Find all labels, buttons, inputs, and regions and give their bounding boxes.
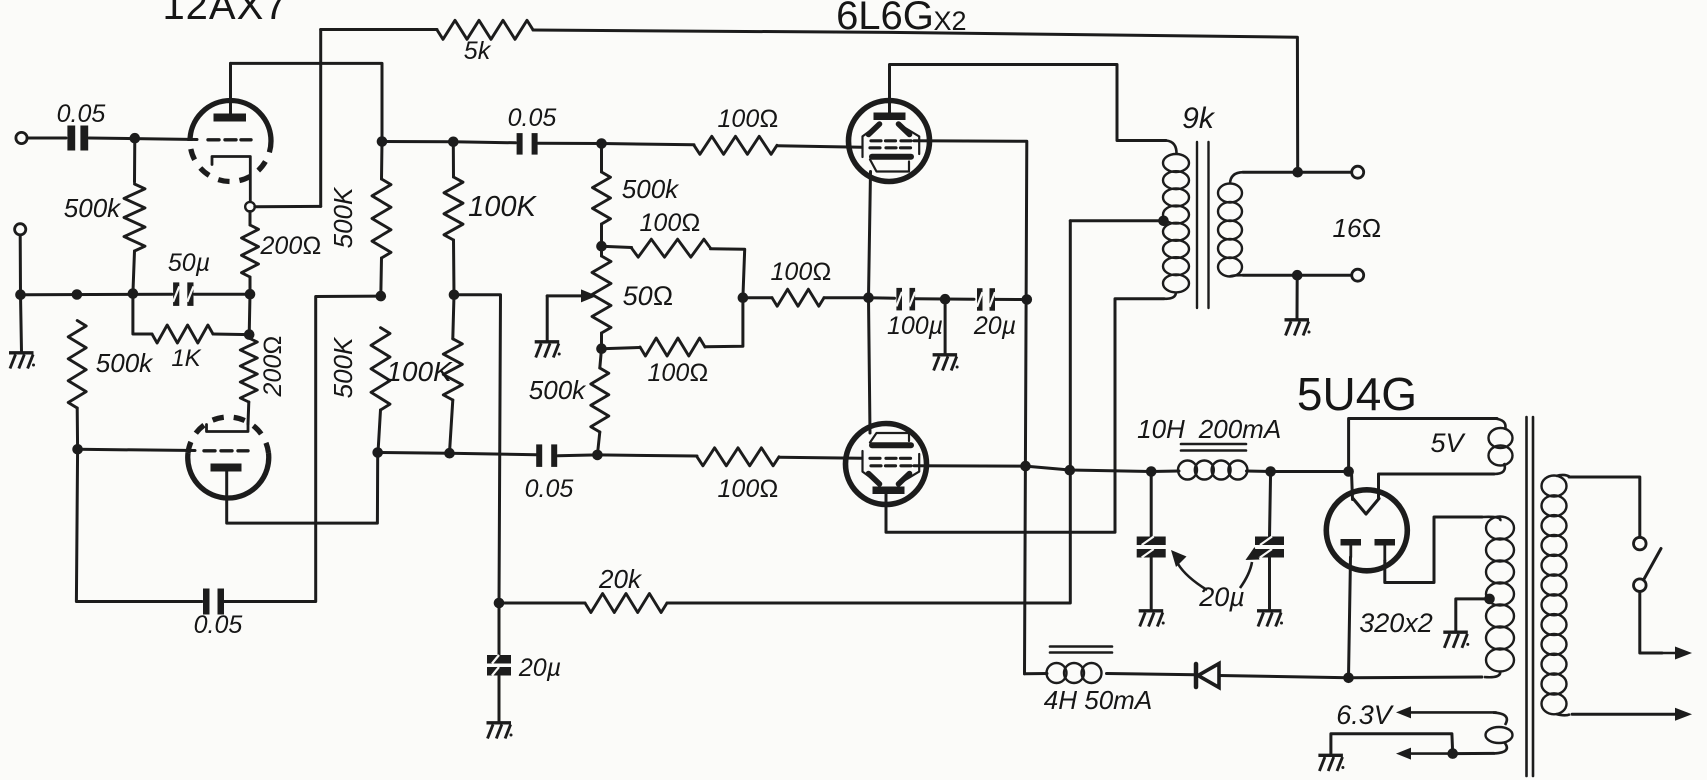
- node B: [448, 137, 459, 148]
- wire HV top bend: [1482, 517, 1500, 521]
- wire V1a plate up: [229, 63, 232, 113]
- node 6.3V tap: [1447, 748, 1458, 759]
- svg-text:200Ω: 200Ω: [260, 232, 322, 260]
- wire D to B+ dropper: [454, 295, 501, 603]
- node secondary bottom: [1292, 270, 1303, 281]
- resistor 200 ohm V1a cathode: [242, 225, 259, 277]
- svg-text:320x2: 320x2: [1359, 608, 1433, 638]
- wire cathode V1a to feedback riser: [255, 205, 321, 208]
- switch S1 contact bottom: [1634, 579, 1647, 592]
- tube V3 plate bar: [873, 487, 905, 495]
- svg-text:9k: 9k: [1182, 102, 1216, 135]
- svg-text:5k: 5k: [464, 37, 492, 65]
- wire V3 plate to OT primary bottom: [886, 299, 1164, 533]
- tube V3 grid bracket: [863, 451, 880, 484]
- transformer OT secondary coil: [1218, 184, 1242, 203]
- wire C3 to node F: [558, 453, 597, 457]
- wire pot bottom lead: [600, 333, 603, 349]
- input jack J2 (bottom): [15, 224, 26, 235]
- wire feedback riser: [319, 30, 322, 207]
- wire mains bottom lead: [1556, 714, 1570, 715]
- node pot top: [596, 241, 607, 252]
- svg-text:0.05: 0.05: [57, 100, 106, 128]
- wire 20u3 lead: [498, 603, 501, 655]
- wire choke left lead: [1151, 470, 1179, 474]
- wire HV CT to ground: [1456, 599, 1490, 632]
- resistor 500k lower-left grid leak V1b: [68, 321, 86, 409]
- wire V3 cathode up: [869, 298, 871, 433]
- wire 20k left lead: [499, 602, 585, 605]
- svg-text:500k: 500k: [529, 375, 587, 405]
- tube V2 plate bar: [874, 113, 906, 121]
- resistor 500k upper grid resistor: [593, 172, 611, 224]
- node cathode V1a (open): [245, 202, 255, 212]
- tube V2 grid bracket: [863, 124, 880, 157]
- wire cathode to 200ohm: [249, 212, 252, 226]
- wire C2 to node E: [538, 142, 602, 145]
- wire mains top lead: [1556, 475, 1570, 477]
- svg-text:500k: 500k: [64, 193, 122, 223]
- transformer 5V winding: [1489, 428, 1513, 448]
- node B+ CT riser: [1065, 465, 1076, 476]
- tube V3 6L6 envelope: [846, 424, 927, 505]
- wire OT secondary bottom: [1230, 275, 1243, 276]
- wire node X to 200ohm2: [247, 335, 250, 338]
- speaker terminal top: [1352, 166, 1364, 178]
- node screen bypass: [1022, 294, 1033, 305]
- wire grid leak top lead: [133, 138, 136, 182]
- svg-text:20µ: 20µ: [1198, 582, 1245, 612]
- wire stopper to grid V2: [777, 146, 862, 148]
- svg-text:16Ω: 16Ω: [1333, 213, 1382, 243]
- switch S1 contact top: [1634, 537, 1647, 550]
- svg-text:100Ω: 100Ω: [718, 475, 779, 503]
- triode V1b cathode: [207, 424, 249, 432]
- tube V2 6L6 envelope: [849, 101, 930, 182]
- wire V4 right plate to HV top: [1385, 517, 1482, 583]
- wire mid to 100ohm4: [743, 296, 772, 299]
- svg-text:500k: 500k: [96, 348, 154, 378]
- wire 500k2 to grid node V1b: [76, 408, 79, 449]
- wire J1 to C1: [27, 137, 66, 140]
- wire J2 down to ground rail: [19, 235, 22, 295]
- resistor 5k feedback: [437, 20, 533, 39]
- wire filament left to B+: [1352, 472, 1353, 500]
- svg-text:500k: 500k: [622, 174, 680, 204]
- tube V4 5U4 envelope: [1326, 490, 1407, 571]
- capacitor 0.05 upper coupling: [517, 133, 523, 155]
- wire feedback top left: [321, 28, 437, 31]
- svg-text:100K: 100K: [386, 356, 453, 387]
- wire 20u4 to ground: [1150, 557, 1153, 610]
- node rail2 left: [372, 447, 383, 458]
- resistor 100 ohm to cathodes: [772, 289, 824, 306]
- arrow to filter B: [1240, 562, 1252, 588]
- choke 4H core: [1050, 645, 1112, 648]
- wire 100k2 bottom: [450, 400, 453, 453]
- wire 200ohm2 to cathode V1b: [247, 402, 251, 424]
- wire C1 to grid V1a: [89, 138, 197, 140]
- node grid V1b: [72, 444, 83, 455]
- tube V2 cathode bar: [872, 154, 911, 160]
- node choke right: [1265, 466, 1276, 477]
- capacitor 0.05 lower coupling: [203, 589, 210, 615]
- wire 100k1 bottom: [452, 240, 456, 295]
- wire 20u5 lead: [1270, 472, 1271, 538]
- capacitor 20u screen bypass: [977, 288, 983, 311]
- wire balance upper to mid: [711, 249, 745, 298]
- triode V1a envelope (solid top, dashed bottom): [190, 101, 271, 142]
- wire 20k to B+ riser: [667, 221, 1070, 603]
- wire wiper to ground: [546, 296, 549, 341]
- wire 20u3 to ground: [498, 676, 501, 722]
- capacitor 20u decoupling: [487, 655, 511, 664]
- resistor 500k lower grid resistor: [591, 368, 609, 432]
- node B+ rectifier: [1343, 466, 1354, 477]
- wire E to 500k5: [600, 144, 603, 173]
- node E upper grid node: [596, 138, 607, 149]
- wire stopper to grid V3: [779, 457, 862, 458]
- wire bypass gnd lead: [944, 299, 947, 354]
- svg-text:0.05: 0.05: [525, 475, 574, 503]
- svg-text:100Ω: 100Ω: [771, 258, 832, 286]
- wire 1k left lead: [133, 294, 152, 334]
- wire E to grid stopper: [602, 144, 695, 145]
- node F lower grid node: [592, 450, 603, 461]
- potentiometer 50 ohm balance: [592, 256, 611, 333]
- svg-text:20µ: 20µ: [518, 654, 561, 682]
- arrow to filter A: [1178, 564, 1207, 590]
- resistor 100 ohm grid stopper upper: [694, 136, 777, 154]
- svg-text:500K: 500K: [328, 186, 358, 248]
- wire rail2 to C3: [450, 453, 537, 455]
- wire 100u to gnd node: [916, 297, 975, 300]
- ground G2 (pot wiper): [535, 340, 560, 343]
- svg-text:12AX7: 12AX7: [162, 0, 287, 28]
- resistor 500k grid leak V1a: [124, 184, 145, 251]
- resistor 100k lower (D-rail2): [443, 339, 462, 400]
- resistor 20k feed: [585, 594, 667, 613]
- node cathodes: [863, 292, 874, 303]
- capacitor 0.05 lower coupling 2: [536, 444, 542, 467]
- wire V2 screen right-down: [914, 141, 1027, 674]
- node A plate rail: [377, 136, 388, 147]
- wire 50u to node X: [195, 293, 251, 296]
- wire to speaker terminal top: [1298, 171, 1352, 174]
- resistor 100 ohm grid stopper lower: [697, 448, 779, 466]
- svg-text:200mA: 200mA: [1198, 414, 1281, 444]
- ground G6 (filter A): [1139, 609, 1164, 612]
- wire diode to HV bottom: [1219, 676, 1349, 678]
- node D: [449, 290, 460, 301]
- wire OT secondary top: [1230, 172, 1243, 183]
- svg-text:0.05: 0.05: [194, 611, 243, 639]
- choke 10H coil: [1178, 461, 1197, 480]
- node 500k1 bottom: [128, 288, 139, 299]
- resistor 500k lower (C-rail2): [371, 328, 390, 410]
- node 20k junction: [494, 598, 505, 609]
- wire 20u4 lead: [1150, 472, 1153, 538]
- wire cathode rail (left): [26, 293, 173, 297]
- wire 200ohm to node X: [249, 277, 252, 294]
- tube V3 cathode tray: [870, 433, 909, 443]
- wire feedback top right: [533, 30, 1298, 172]
- resistor 100k upper (B-D): [444, 177, 463, 240]
- wire 500k5 to pot top: [600, 224, 603, 246]
- wire node X down: [248, 294, 252, 334]
- wire pot top to 100ohm: [602, 246, 632, 247]
- ground G4 (bypass): [933, 353, 958, 356]
- wire 0.05 to node C: [221, 296, 381, 601]
- wire 100k2 top: [453, 295, 454, 339]
- wire plate V1a to node A: [231, 63, 383, 141]
- wire 20u5 to ground: [1268, 557, 1271, 610]
- tube V4 filament V: [1353, 499, 1379, 515]
- wire V2 cathode down: [869, 172, 871, 298]
- resistor 1K tail: [152, 325, 213, 343]
- wire to ground G1: [21, 295, 22, 352]
- choke 4H coil: [1047, 663, 1067, 683]
- wire rail B to C2: [453, 142, 515, 143]
- svg-text:1K: 1K: [171, 345, 201, 372]
- node HV center tap: [1484, 594, 1495, 605]
- wire pot bottom to 500k6: [600, 349, 602, 368]
- tube V3 control grid dashes: [870, 457, 880, 460]
- wire 20u2 to screen node: [995, 298, 1027, 301]
- transformer OT core: [1196, 142, 1198, 308]
- wire 6.3V top lead + arrow: [1493, 713, 1507, 725]
- speaker terminal bottom: [1352, 269, 1364, 281]
- svg-text:6L6G: 6L6G: [836, 0, 934, 38]
- wire grid leak bottom lead: [133, 251, 135, 294]
- wire 500k3 top: [380, 142, 384, 180]
- tube V3 beam plates: [869, 474, 880, 485]
- ground G9 (6.3V): [1318, 754, 1343, 757]
- capacitor 100u cathode bypass: [896, 288, 902, 311]
- node 500k2 top: [72, 289, 83, 300]
- node C: [376, 291, 387, 302]
- node HV bottom junction: [1343, 673, 1354, 684]
- svg-text:20µ: 20µ: [973, 312, 1016, 340]
- wire HV bottom bend: [1484, 671, 1500, 677]
- wire screen column to 4H: [1025, 672, 1048, 675]
- triode V1b plate bar: [211, 464, 242, 472]
- transformer 6.3V winding: [1486, 727, 1513, 743]
- wire OT primary bottom bend: [1164, 292, 1176, 299]
- node X cathode junction: [245, 289, 256, 300]
- transformer OT primary coil: [1163, 154, 1189, 172]
- node B+ screens: [1020, 461, 1031, 472]
- svg-text:100K: 100K: [468, 191, 537, 223]
- wire pot top lead: [600, 246, 603, 256]
- ground G1: [9, 351, 34, 354]
- wire pot bottom to 100ohm: [602, 348, 641, 349]
- wire to HV winding bottom: [1349, 676, 1483, 680]
- wire choke to rectifier: [1271, 470, 1349, 473]
- wire V1b grid lower coupling: [76, 449, 202, 601]
- svg-text:100Ω: 100Ω: [718, 105, 779, 133]
- node OT center tap: [1158, 216, 1169, 227]
- transformer HV winding (320x2): [1486, 517, 1514, 540]
- svg-text:0.05: 0.05: [508, 104, 557, 132]
- wire rail2 left: [378, 451, 450, 455]
- wire 5V winding bottom to filament: [1379, 474, 1495, 499]
- wire plate V1b down-right-up: [227, 453, 378, 524]
- triode V1b grid dashes: [204, 449, 215, 452]
- svg-text:20k: 20k: [598, 564, 643, 594]
- wire 100ohm4 to cathode node: [824, 296, 869, 299]
- wire 500k6 to node F: [597, 432, 599, 455]
- ground G7 (filter B): [1257, 609, 1282, 612]
- capacitor 50u cathode bypass: [173, 282, 179, 306]
- wire grid V1b: [78, 449, 195, 450]
- svg-text:6.3V: 6.3V: [1336, 700, 1395, 730]
- wire 500k3 bottom: [379, 258, 383, 296]
- wire cathode node to 100u: [869, 296, 895, 300]
- tube V3 cathode bar: [872, 442, 911, 448]
- resistor 100 ohm balance upper: [632, 239, 711, 257]
- ground G3: [487, 721, 512, 724]
- wire 500k4 bottom: [378, 410, 381, 453]
- wire B+ rail: [1026, 466, 1152, 471]
- ground G8 (HV CT): [1443, 631, 1468, 634]
- svg-text:50Ω: 50Ω: [623, 281, 674, 311]
- wire 1k right lead: [213, 333, 249, 337]
- wire OT primary top bend: [1166, 141, 1177, 155]
- wire 4H to diode: [1107, 674, 1197, 675]
- resistor 500k upper (A-C): [372, 179, 391, 258]
- resistor 200 ohm V1b cathode: [240, 338, 257, 402]
- node pot bottom: [596, 343, 607, 354]
- node J2 rail: [15, 289, 26, 300]
- wire OT CT: [1070, 219, 1163, 222]
- svg-text:5V: 5V: [1430, 428, 1466, 458]
- diode D1: [1198, 664, 1219, 688]
- resistor 100 ohm balance lower: [640, 338, 705, 356]
- node balance mid: [738, 292, 749, 303]
- node rail2 100k: [444, 448, 455, 459]
- tube V2 control grid dashes: [870, 146, 880, 149]
- capacitor 0.05 input coupling: [67, 126, 75, 151]
- node secondary top: [1292, 167, 1303, 178]
- wire 6.3V to ground: [1331, 734, 1453, 755]
- svg-text:5U4G: 5U4G: [1297, 368, 1417, 420]
- svg-text:100Ω: 100Ω: [640, 209, 701, 237]
- triode V1b envelope (solid bottom, dashed top): [188, 453, 269, 498]
- svg-text:X2: X2: [933, 6, 966, 36]
- wire to speaker terminal bottom: [1297, 274, 1351, 277]
- triode V1a cathode: [212, 157, 250, 203]
- svg-text:200Ω: 200Ω: [259, 336, 287, 398]
- node grid V1a: [130, 133, 141, 144]
- tube V4 plate right: [1375, 539, 1396, 546]
- wire 6.3V bottom lead: [1494, 742, 1507, 753]
- wire secondary bottom to ground: [1296, 275, 1299, 319]
- wire F to stopper lower: [597, 455, 697, 456]
- capacitor 20u filter A: [1137, 537, 1166, 546]
- capacitor 20u filter B: [1255, 537, 1284, 546]
- wire V3 screen to B+ rail: [914, 464, 1026, 467]
- wire rail A-B: [382, 140, 453, 143]
- tube V4 plate left: [1341, 539, 1362, 546]
- triode V1a grid dashes: [208, 138, 219, 141]
- node 1k right: [244, 329, 255, 340]
- switch S1 lever: [1644, 549, 1662, 581]
- node bypass ground: [940, 294, 951, 305]
- wire V4 left plate down: [1349, 557, 1351, 678]
- node choke left: [1146, 466, 1157, 477]
- transformer core: [1525, 417, 1528, 776]
- wire switch to line: [1640, 592, 1662, 654]
- tube V2 cathode tray: [870, 160, 909, 172]
- triode V1a plate bar: [214, 114, 247, 122]
- svg-text:10H: 10H: [1137, 414, 1185, 444]
- wire V2 plate to OT primary top: [890, 65, 1167, 141]
- svg-text:4H 50mA: 4H 50mA: [1044, 685, 1152, 715]
- transformer mains primary coil: [1542, 476, 1567, 497]
- wire B+ up to 5V top: [1349, 419, 1497, 472]
- svg-text:500K: 500K: [328, 336, 358, 398]
- pot wiper arrow: [547, 294, 583, 297]
- wire 100k1 top: [452, 142, 455, 177]
- svg-text:100Ω: 100Ω: [648, 359, 709, 387]
- tube V3 screen grid dashes: [871, 464, 881, 467]
- heater arrow 2: [1409, 752, 1453, 755]
- input jack J1 (top): [16, 132, 27, 143]
- svg-text:100µ: 100µ: [887, 312, 943, 340]
- ground G5 (secondary): [1285, 318, 1310, 321]
- wire balance lower to mid: [705, 298, 743, 347]
- tube V2 screen grid dashes: [871, 139, 881, 142]
- tube V2 beam plates: [869, 124, 880, 135]
- choke 10H core: [1181, 443, 1246, 446]
- wire choke right lead: [1247, 470, 1271, 474]
- svg-text:50µ: 50µ: [168, 249, 210, 277]
